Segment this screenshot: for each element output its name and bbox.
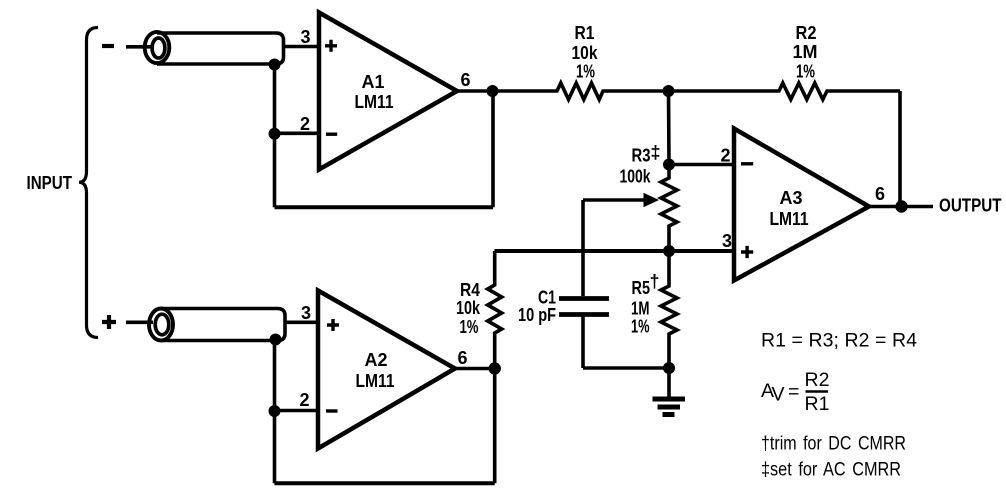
junction A1 output node [487,85,499,97]
junction A2 output node [489,362,501,374]
svg-text:INPUT: INPUT [27,173,73,193]
wire A1 output [457,89,493,93]
wire A1 feedback vertical [491,91,495,207]
op-amp U A2 [318,291,455,449]
junction A2 pin2 [269,405,281,417]
wire [126,320,153,324]
svg-text:V: V [772,383,785,405]
svg-text:R1: R1 [805,393,830,415]
svg-text:2: 2 [720,145,730,165]
svg-text:3: 3 [300,27,310,47]
svg-text:LM11: LM11 [356,371,395,391]
wire R2 to output node [898,91,902,207]
svg-text:R2: R2 [805,369,830,391]
capacitor C1 [559,299,609,369]
svg-text:A3: A3 [779,188,802,208]
wire A2 pin3 [285,320,318,324]
junction R5 bottom / ground node [663,362,675,374]
svg-text:1M: 1M [631,299,650,319]
wire A3 output [869,205,933,209]
svg-text:R5: R5 [632,278,651,298]
svg-text:3: 3 [301,303,311,323]
svg-text:R1: R1 [575,23,595,43]
wire shield column (A1) [273,65,277,208]
svg-text:3: 3 [722,231,732,251]
op-amp U A1 [319,13,457,170]
svg-text:A2: A2 [364,350,387,370]
svg-text:‡: ‡ [651,143,661,163]
input plus terminal [102,315,116,329]
svg-text:OUTPUT: OUTPUT [939,196,1002,216]
svg-text:‡set for AC CMRR: ‡set for AC CMRR [761,459,901,481]
svg-text:†: † [650,272,660,292]
svg-text:6: 6 [460,70,470,90]
wire R3 column top [667,91,671,165]
resistor R1 [493,83,669,100]
svg-text:†trim for DC CMRR: †trim for DC CMRR [761,432,906,454]
svg-text:10k: 10k [456,298,481,318]
resistor R5 [661,251,677,368]
svg-text:1%: 1% [460,317,479,337]
svg-text:R3: R3 [632,146,651,166]
wire A2 feedback bottom [275,481,495,485]
wire A1 feedback bottom [275,205,494,209]
svg-text:R2: R2 [796,23,817,43]
resistor R2 [669,83,901,100]
wire R3 wiper to C1 [581,200,585,296]
op-amp U A3 [734,129,869,281]
formula Av = R2/R1 [761,369,829,415]
junction R3 top / A3 pin2 [663,159,675,171]
svg-text:10k: 10k [572,43,599,63]
svg-text:2: 2 [300,114,310,134]
wire A2 pin2 [275,409,319,413]
junction output node [895,200,907,212]
wire A3 pin2 [669,163,734,167]
junction A1 pin2 [269,128,281,140]
resistor R4 [488,251,502,369]
wire A2 output [455,367,495,371]
svg-text:2: 2 [299,390,309,410]
svg-text:10 pF: 10 pF [518,305,556,325]
wire shield column (A2) [273,340,277,484]
svg-text:6: 6 [457,348,467,368]
junction R3 bottom / A3 pin3 [663,245,675,257]
wire A3 pin3 row [495,249,735,253]
svg-text:LM11: LM11 [355,92,394,112]
svg-text:100k: 100k [620,166,652,186]
input brace [79,28,98,338]
fraction bar [806,390,829,392]
svg-text:1%: 1% [796,61,815,81]
junction coax shield (A1) [269,59,281,71]
input minus terminal [102,44,114,48]
node R1/R2/R3 [663,85,675,97]
svg-text:1%: 1% [576,61,595,81]
svg-text:1%: 1% [631,317,650,337]
wire [126,45,152,49]
svg-text:6: 6 [875,184,885,204]
wire A1 pin2 [275,132,320,136]
coax shielded cable (A1 input) [145,32,284,64]
svg-text:R1 = R3; R2 = R4: R1 = R3; R2 = R4 [761,330,917,352]
svg-text:R4: R4 [460,280,480,300]
junction coax shield (A2) [270,334,282,346]
svg-text:A1: A1 [361,72,384,92]
svg-text:LM11: LM11 [770,209,809,229]
potentiometer R3 [583,165,677,251]
svg-text:1M: 1M [792,42,817,62]
wire A2 feedback vertical [493,369,497,484]
coax shielded cable (A2 input) [149,309,285,341]
wire A1 pin3 [284,45,320,49]
svg-text:=: = [788,381,799,403]
ground [653,368,686,415]
wire C1 to ground node [583,366,669,370]
